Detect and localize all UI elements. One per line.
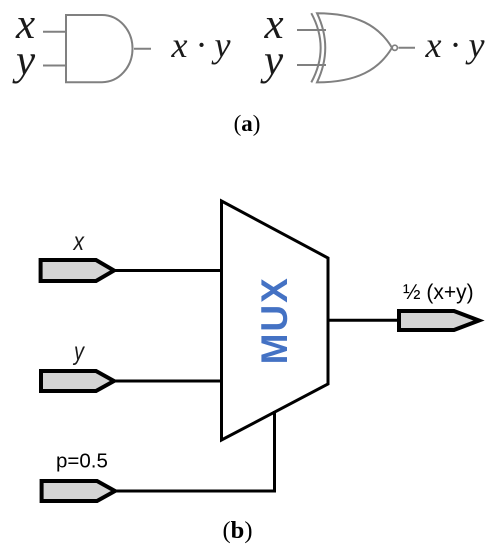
wire: select terminal to MUX select pin: [115, 411, 275, 491]
XNOR gate U2 input-side double curve: [311, 13, 320, 82]
XNOR gate U2 body: [317, 13, 392, 82]
wire: y input to AND gate: [43, 65, 66, 67]
svg-text:p=0.5: p=0.5: [56, 450, 108, 473]
svg-text:y: y: [72, 338, 85, 366]
svg-text:(a): (a): [234, 111, 261, 136]
terminal: select input connector: [42, 481, 115, 501]
svg-text:½ (x+y): ½ (x+y): [403, 281, 474, 304]
terminal: x input connector: [41, 260, 114, 281]
MUX U3 body: [222, 201, 329, 440]
wire: y input to XNOR gate: [297, 64, 326, 66]
svg-text:y: y: [260, 37, 284, 84]
wire: y terminal to MUX: [114, 380, 222, 383]
svg-text:y: y: [12, 37, 36, 84]
terminal: output connector: [399, 311, 479, 330]
AND gate U1: [66, 15, 133, 82]
svg-text:(b): (b): [223, 517, 253, 544]
wire: XNOR gate output: [399, 47, 416, 49]
terminal: y input connector: [41, 371, 114, 391]
wire: x input to XNOR gate: [297, 29, 326, 31]
wire: x terminal to MUX: [114, 269, 222, 272]
wire: AND gate output: [134, 48, 151, 50]
svg-text:x · y: x · y: [171, 25, 231, 65]
svg-text:MUX: MUX: [254, 276, 295, 364]
wire: MUX output: [328, 319, 399, 322]
wire: x input to AND gate: [43, 31, 66, 33]
XNOR gate U2 inversion bubble: [392, 45, 397, 50]
svg-text:x · y: x · y: [425, 25, 485, 65]
svg-text:x: x: [73, 228, 86, 256]
